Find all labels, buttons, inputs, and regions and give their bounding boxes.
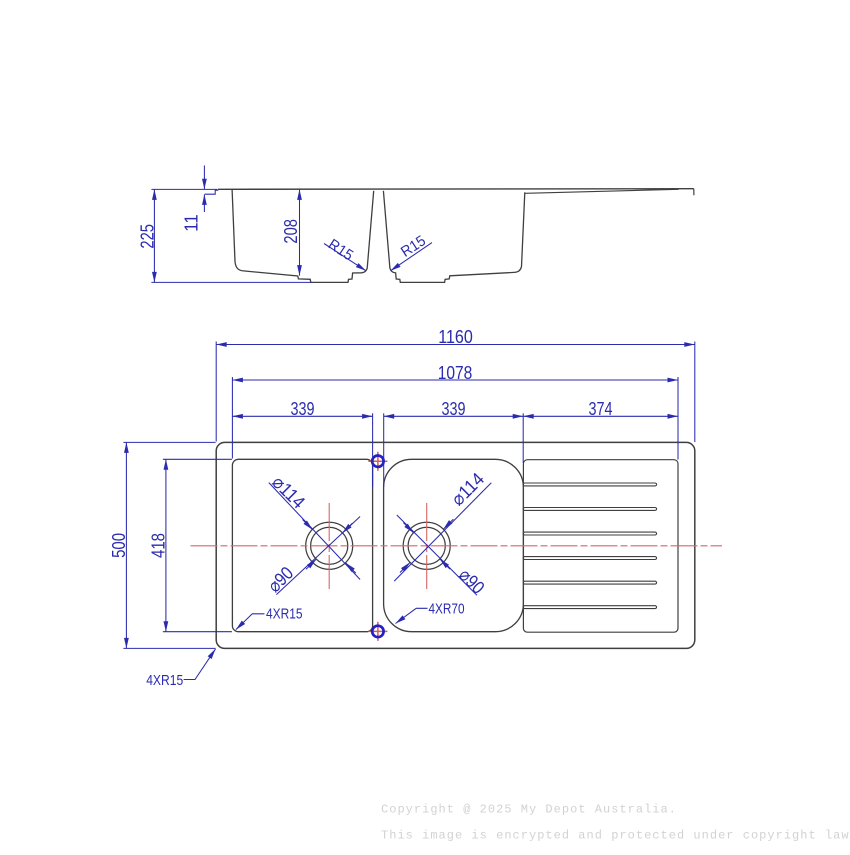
dim 339 right line: [384, 415, 524, 417]
left drain dia 90 arrow SW: [306, 559, 316, 569]
left drain dia 114 dim line: [269, 483, 360, 580]
svg-text:208: 208: [280, 219, 301, 244]
right bowl section profile: [383, 191, 524, 283]
ext line gap right: [383, 413, 385, 487]
ext line inner left: [231, 377, 233, 459]
left drain outer circle: [306, 522, 353, 569]
drainer groove 3: [523, 532, 656, 535]
svg-text:This image is encrypted and pr: This image is encrypted and protected un…: [381, 829, 850, 843]
rim top line: [218, 188, 694, 191]
ext line bowl bottom-left horizontal: [163, 631, 232, 633]
drainer slope line: [525, 189, 678, 193]
ext line bowl top-left horizontal: [163, 458, 232, 460]
svg-text:339: 339: [442, 398, 466, 419]
dim 1160 line: [216, 344, 695, 346]
right drain dia 90 arrow NW: [403, 523, 413, 533]
left drain dia 114 arrow NW: [303, 520, 313, 530]
right drain dia 90 arrow SE: [440, 559, 450, 569]
drainer groove 2: [523, 508, 656, 511]
svg-text:4XR15: 4XR15: [146, 672, 183, 689]
left drain dia 90 arrow NE: [342, 523, 352, 533]
right drain dia 114 arrow SW: [400, 562, 410, 572]
svg-text:Copyright @ 2025 My Depot Aust: Copyright @ 2025 My Depot Australia.: [381, 803, 677, 817]
svg-text:4XR15: 4XR15: [266, 606, 303, 623]
dim 225 extension line bottom: [151, 281, 311, 283]
dim 1078 line: [232, 379, 678, 381]
outer corner label 4XR15 leader: [184, 649, 216, 680]
top tap hole ring: [372, 456, 383, 467]
top tap hole crosshair: [368, 452, 387, 471]
left drain inner circle: [311, 527, 348, 564]
right drain dia 114 arrow NE: [443, 519, 453, 529]
dim 339 left line: [232, 415, 372, 417]
drainer groove 1: [523, 483, 656, 486]
ext line outer bottom-left horizontal: [123, 647, 215, 649]
dim 225 line: [153, 189, 155, 282]
svg-text:374: 374: [589, 398, 613, 419]
left drain vertical centerline: [328, 503, 330, 589]
drainer rect: [523, 460, 678, 633]
dim 374 line: [523, 415, 678, 417]
bowl corner label 4XR70 leader: [396, 608, 428, 623]
dim 11 lower arrow line: [203, 194, 205, 212]
right drain inner circle: [408, 527, 445, 564]
left drain dia 114 arrow SE: [346, 563, 356, 573]
svg-text:1160: 1160: [438, 326, 473, 347]
rim right end tick: [693, 189, 695, 196]
svg-text:225: 225: [136, 224, 157, 249]
radius label R15 left leader: [324, 244, 366, 271]
svg-text:500: 500: [108, 533, 129, 558]
ext line inner right: [677, 377, 679, 460]
bowl corner label 4XR15 leader: [236, 614, 265, 630]
drainer groove 5: [523, 581, 656, 584]
svg-text:11: 11: [180, 214, 201, 232]
radius label R15 right leader: [391, 243, 433, 271]
sink outer rim rect: [216, 442, 695, 648]
dim 418 line: [165, 459, 167, 631]
main horizontal centerline: [191, 545, 723, 547]
dim 11 extension bracket: [205, 190, 219, 194]
svg-text:339: 339: [291, 398, 315, 419]
ext line gap left: [372, 413, 374, 487]
svg-text:4XR70: 4XR70: [429, 601, 465, 618]
dim 500 line: [125, 442, 127, 648]
drainer groove 4: [523, 557, 656, 560]
bottom tap hole ring: [372, 626, 383, 637]
bottom tap hole crosshair: [368, 622, 387, 641]
right drain dia 90 dim line: [397, 515, 477, 595]
right drain outer circle: [403, 522, 450, 569]
svg-text:418: 418: [148, 533, 169, 558]
svg-text:1078: 1078: [438, 362, 473, 383]
ext line outer right: [694, 342, 696, 443]
dim 225 extension line top: [151, 188, 217, 190]
left bowl section profile: [232, 190, 374, 283]
ext line bowl2-drainer: [522, 413, 524, 463]
ext line outer left: [215, 342, 217, 442]
dim 11 upper arrow line: [203, 166, 205, 190]
left bowl rect: [232, 459, 372, 631]
ext line outer top-left horizontal: [123, 441, 215, 443]
right bowl rect: [384, 459, 524, 631]
drainer groove 6: [523, 606, 656, 609]
dim 208 line: [299, 189, 301, 275]
right drain dia 114 dim line: [394, 483, 491, 581]
right drain vertical centerline: [426, 503, 428, 589]
left drain dia 90 dim line: [276, 517, 360, 595]
